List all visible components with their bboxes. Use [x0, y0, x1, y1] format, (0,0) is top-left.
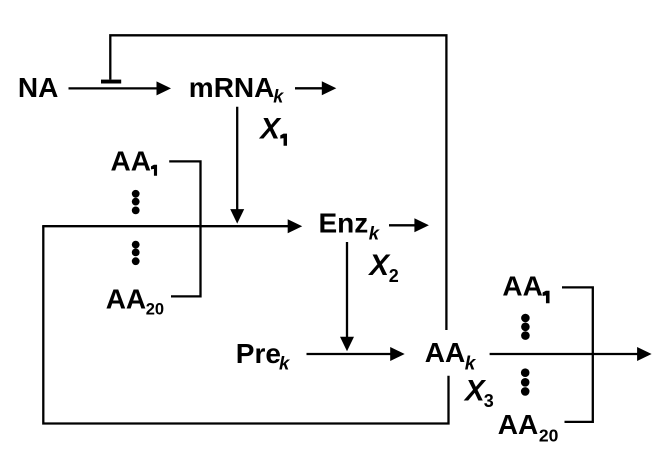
svg-text:X: X — [258, 113, 282, 146]
inhibition T-bar — [101, 80, 121, 84]
svg-text:AA: AA — [106, 284, 146, 315]
node AA20 right — [498, 409, 559, 446]
svg-text:Pre: Pre — [236, 338, 281, 369]
node AA1 left — [111, 145, 158, 176]
wire feedback top: from inhibitor stem right and down to AAk — [110, 35, 446, 330]
label X2 — [367, 249, 398, 286]
svg-text:20: 20 — [539, 426, 559, 446]
node AAk — [425, 337, 477, 375]
arrow mRNA out right — [295, 81, 336, 95]
bracket left AA group — [169, 161, 200, 296]
dots left upper — [132, 190, 140, 214]
svg-text:k: k — [279, 353, 291, 374]
svg-text:k: k — [369, 223, 381, 244]
arrow Enz out right — [389, 218, 429, 232]
node AA20 left — [106, 284, 164, 319]
svg-text:20: 20 — [146, 301, 164, 319]
bracket right AA group — [562, 287, 593, 422]
dots right lower — [521, 368, 530, 395]
svg-text:AA: AA — [425, 337, 465, 368]
svg-text:k: k — [273, 86, 284, 106]
node NA — [18, 72, 58, 103]
svg-text:3: 3 — [484, 391, 494, 411]
svg-text:AA: AA — [111, 145, 151, 176]
label X3 — [463, 375, 494, 412]
node AA1 right — [502, 270, 549, 303]
arrow mRNA down to Enz — [230, 107, 244, 224]
arrow Pre to AAk — [307, 347, 405, 361]
node Enzk — [319, 207, 381, 243]
arrow NA to mRNA — [69, 81, 172, 95]
dots left lower — [132, 241, 140, 265]
svg-text:k: k — [465, 354, 477, 375]
svg-text:AA: AA — [498, 409, 538, 440]
svg-text:AA: AA — [502, 270, 542, 301]
arrow Enz down to Prek reaction — [340, 242, 354, 351]
node mRNAk — [189, 72, 284, 106]
svg-text:mRNA: mRNA — [189, 72, 275, 103]
arrow AAk out right long — [490, 347, 652, 361]
node Prek — [236, 338, 291, 374]
svg-text:2: 2 — [389, 266, 399, 286]
svg-text:NA: NA — [18, 72, 58, 103]
arrow amino acids to Enz (long line) — [42, 219, 302, 233]
dots right upper — [521, 314, 530, 340]
wire AAk down to bottom feedback to amino-acid line — [43, 226, 448, 423]
svg-text:Enz: Enz — [319, 207, 369, 238]
label X1 — [258, 113, 287, 146]
